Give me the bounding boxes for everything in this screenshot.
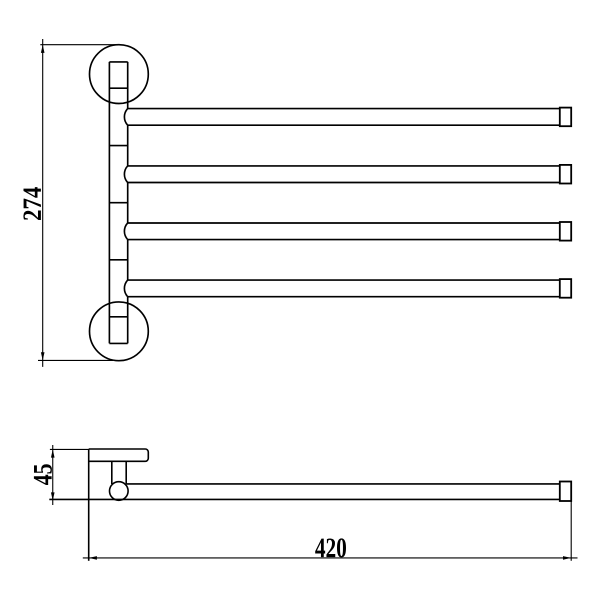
post joint line top rosette <box>109 87 127 89</box>
bar 2 <box>124 166 559 183</box>
arrowhead up 45 <box>51 449 55 457</box>
bar 4 <box>124 280 559 297</box>
wall plate left edge + 420 left extension line <box>88 449 90 561</box>
arrowhead left 420 <box>89 556 97 560</box>
label 45 <box>34 464 52 485</box>
extension line top <box>40 44 120 46</box>
dimension 45 <box>50 445 89 505</box>
bar 1 end cap <box>560 108 571 127</box>
extension line top 45 <box>50 448 89 450</box>
bar 1 <box>124 109 559 126</box>
post joint line 1 <box>109 145 127 147</box>
dimension line 45 <box>52 445 54 505</box>
bar side top edge <box>126 483 560 485</box>
label 274 <box>23 187 41 220</box>
post right edge segments <box>127 62 129 344</box>
dimension line 274 <box>42 39 44 367</box>
bar 3 end cap <box>560 222 571 241</box>
top mounting rosette circle <box>90 45 149 104</box>
arrowhead right 420 <box>563 556 571 560</box>
dimension line 420 <box>83 557 578 559</box>
post joint line 2 <box>109 202 127 204</box>
pivot ball <box>110 482 129 501</box>
pivot housing left <box>111 461 113 484</box>
bar 4 end cap <box>560 279 571 298</box>
arrowhead down 274 <box>41 352 45 360</box>
label 420 <box>315 538 346 557</box>
extension line right 420 <box>570 501 572 561</box>
post top edge <box>109 61 127 63</box>
post joint line 3 <box>109 259 127 261</box>
dimension 420 <box>83 501 578 561</box>
bar side bottom edge + 45 bottom extension <box>49 498 560 500</box>
post joint line bottom rosette <box>109 316 127 318</box>
post bottom edge <box>109 342 127 344</box>
extension line bottom <box>38 359 113 361</box>
dimension 274 <box>38 39 120 367</box>
pivot housing right <box>125 461 127 484</box>
side view (bottom) <box>49 449 560 561</box>
bar 3 <box>124 223 559 240</box>
mounting plate <box>89 449 149 461</box>
post left edge <box>108 62 110 344</box>
arrowhead down 45 <box>51 492 55 500</box>
arrowhead up 274 <box>41 45 45 53</box>
bar 2 end cap <box>560 165 571 184</box>
bottom mounting rosette circle <box>90 302 149 361</box>
bar end cap side view <box>560 482 571 502</box>
